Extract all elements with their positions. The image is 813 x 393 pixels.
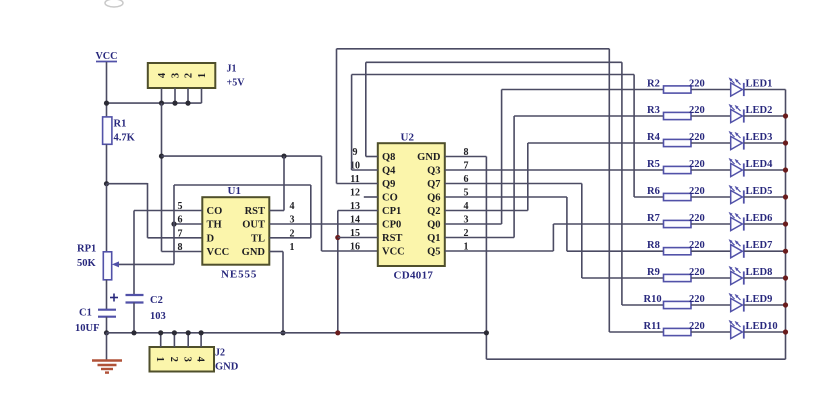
svg-text:1: 1	[290, 242, 295, 253]
svg-text:9: 9	[353, 147, 358, 158]
svg-text:8: 8	[178, 242, 183, 253]
junction J2 pin2 at rail	[172, 330, 177, 335]
wire J2 pin4 lead	[200, 333, 202, 347]
wire U1 pin8 VCC stub	[162, 251, 203, 253]
wire Q8 drop to LED9 row	[621, 62, 623, 305]
wire RST riser to +5V rail	[283, 156, 285, 210]
wire +5V rail	[162, 155, 322, 157]
wire R1 bottom to node D	[106, 144, 108, 183]
svg-text:R2: R2	[647, 78, 660, 89]
svg-text:1: 1	[154, 357, 165, 362]
wire R5 to LED4	[691, 169, 731, 171]
junction cathode bus LED3	[783, 140, 788, 145]
svg-text:VCC: VCC	[95, 51, 117, 62]
junction C1 ground rail	[104, 330, 109, 335]
wire C2 bottom to ground rail	[133, 303, 135, 333]
svg-text:U2: U2	[401, 132, 415, 144]
junction cathode bus LED4	[783, 167, 788, 172]
svg-text:220: 220	[689, 294, 705, 305]
svg-text:D: D	[207, 233, 215, 244]
wire TL loop right down	[310, 185, 312, 238]
svg-text:LED8: LED8	[746, 267, 773, 278]
svg-text:R10: R10	[644, 294, 662, 305]
wire LED2 row	[514, 115, 663, 117]
U1 left pin numbers 5 6 7 8	[178, 201, 183, 253]
LED7	[729, 239, 773, 258]
capacitor C1	[75, 294, 118, 335]
wire LED return bottom	[486, 358, 785, 360]
svg-text:LED7: LED7	[746, 240, 773, 251]
wire CP1-RST ground column	[337, 211, 339, 333]
svg-text:LED1: LED1	[746, 78, 773, 89]
svg-text:220: 220	[689, 186, 705, 197]
wire R6 to LED5	[691, 196, 731, 198]
junction TH node	[171, 221, 176, 226]
wire Q6 drop to LED7 row	[566, 197, 568, 251]
svg-text:12: 12	[350, 188, 360, 199]
wire Q0 riser to LED1 row	[501, 90, 503, 225]
connector J1	[148, 63, 245, 89]
resistor R11	[644, 321, 705, 336]
svg-text:103: 103	[150, 311, 166, 322]
svg-text:VCC: VCC	[382, 247, 405, 258]
wire C1 bottom to ground rail	[106, 317, 108, 333]
wire node D horizontal	[107, 183, 148, 185]
resistor R8	[647, 240, 705, 255]
svg-text:220: 220	[689, 213, 705, 224]
svg-text:220: 220	[689, 78, 705, 89]
wire U2 pin7 Q3 to LED4 row	[445, 169, 664, 171]
wire LED10 cathode to bus	[744, 331, 786, 333]
scan artifact top	[105, 0, 123, 7]
svg-text:J1: J1	[227, 64, 237, 75]
svg-text:RP1: RP1	[77, 244, 96, 255]
svg-text:2: 2	[168, 357, 179, 362]
wire J1 pin2 lead	[187, 88, 189, 103]
svg-text:220: 220	[689, 267, 705, 278]
junction cathode bus LED5	[783, 194, 788, 199]
svg-text:Q9: Q9	[382, 179, 395, 190]
wire Q8 top bus	[366, 61, 622, 63]
wire LED1 row	[502, 89, 664, 91]
svg-text:2: 2	[184, 73, 195, 78]
svg-text:7: 7	[178, 228, 183, 239]
junction J2 pin3 at rail	[186, 330, 191, 335]
U2 right pin numbers 8-1	[464, 147, 469, 253]
svg-text:1: 1	[197, 73, 208, 78]
wire Q7 drop to LED8 row	[581, 184, 583, 279]
junction U2 RST tap	[335, 235, 340, 240]
wire J1 pin4 lead	[161, 88, 163, 103]
LED3	[729, 131, 773, 150]
wire LED7 row	[567, 250, 664, 252]
svg-text:10UF: 10UF	[75, 323, 100, 334]
resistor R4	[647, 132, 705, 147]
svg-text:4.7K: 4.7K	[114, 133, 136, 144]
wire J2 pin3 lead	[187, 333, 189, 347]
svg-text:4: 4	[195, 357, 206, 363]
svg-text:LED5: LED5	[746, 186, 773, 197]
svg-text:R7: R7	[647, 213, 660, 224]
wire Q4 drop to LED5 row	[633, 75, 635, 198]
svg-text:LED4: LED4	[746, 159, 774, 170]
svg-text:R5: R5	[647, 159, 660, 170]
wire J2 pin1 lead	[160, 333, 162, 347]
wire U1 pin1 GND stub	[269, 251, 283, 253]
wire U2 pin6 Q7 stub	[445, 183, 582, 185]
svg-text:4: 4	[290, 201, 295, 212]
svg-text:220: 220	[689, 159, 705, 170]
wire node D vertical to pin7 row	[147, 183, 149, 238]
svg-text:R6: R6	[647, 186, 660, 197]
wire U2 GND drop	[485, 157, 487, 360]
power symbol VCC	[95, 51, 117, 62]
svg-text:LED3: LED3	[746, 132, 773, 143]
junction cathode bus LED8	[783, 275, 788, 280]
svg-text:Q3: Q3	[427, 166, 440, 177]
svg-text:OUT: OUT	[242, 220, 265, 231]
LED6	[729, 212, 773, 231]
junction U1 GND at rail	[280, 330, 285, 335]
wire U2 pin5 Q6 stub	[445, 196, 567, 198]
junction cathode bus LED7	[783, 249, 788, 254]
wire to U1 pin 7	[148, 237, 203, 239]
wire R11 to LED10	[691, 331, 731, 333]
wire U2 pin13 CP1 stub	[338, 210, 378, 212]
resistor R7	[647, 213, 705, 228]
svg-text:CP0: CP0	[382, 220, 401, 231]
svg-text:CD4017: CD4017	[394, 270, 434, 282]
svg-text:3: 3	[182, 357, 193, 362]
wire R7 to LED6	[691, 223, 731, 225]
wire R3 to LED2	[691, 115, 731, 117]
potentiometer RP1	[77, 244, 112, 280]
wire ground rail to ground symbol	[106, 333, 108, 360]
svg-text:LED9: LED9	[746, 294, 773, 305]
svg-text:+5V: +5V	[227, 78, 246, 89]
LED9	[729, 293, 773, 312]
junction J2 pin4 at rail	[199, 330, 204, 335]
junction VCC rail at J1 pin4	[159, 101, 164, 106]
svg-text:CO: CO	[382, 193, 398, 204]
svg-text:16: 16	[350, 242, 360, 253]
wire LED3 row	[528, 142, 664, 144]
wire J1 pin1 lead	[201, 88, 203, 103]
junction cathode bus LED10	[783, 329, 788, 334]
wire VCC rail under J1	[107, 102, 202, 104]
wire Q5 riser to LED6 row	[552, 224, 554, 251]
svg-text:C2: C2	[150, 295, 163, 306]
junction cathode bus LED2	[783, 113, 788, 118]
U1 left pin names	[207, 206, 230, 258]
svg-text:VCC: VCC	[207, 247, 230, 258]
svg-text:220: 220	[689, 321, 705, 332]
wire LED8 cathode to bus	[744, 277, 786, 279]
svg-text:C1: C1	[79, 308, 92, 319]
LED5	[729, 185, 773, 204]
ic U2 CD4017 body	[378, 132, 445, 282]
wire +5V rail node to R1 top	[106, 103, 108, 117]
ground	[92, 361, 122, 373]
resistor R9	[647, 267, 705, 282]
LED4	[729, 158, 773, 177]
svg-text:Q5: Q5	[427, 247, 440, 258]
wire Q9 drop to LED10 row	[608, 49, 610, 332]
junction J2 pin1 at rail	[158, 330, 163, 335]
svg-text:GND: GND	[215, 362, 239, 373]
svg-text:Q8: Q8	[382, 152, 395, 163]
wire R9 to LED8	[691, 277, 731, 279]
svg-text:Q4: Q4	[382, 166, 396, 177]
wire LED6 cathode to bus	[744, 223, 786, 225]
LED8	[729, 266, 773, 285]
wire node D down to RP1 top	[106, 184, 108, 252]
wire LED cathode bus	[785, 90, 787, 360]
svg-text:LED10: LED10	[746, 321, 778, 332]
wire LED10 row	[609, 331, 663, 333]
svg-text:TH: TH	[207, 220, 222, 231]
junction cathode bus LED6	[783, 221, 788, 226]
wire R8 to LED7	[691, 250, 731, 252]
svg-text:J2: J2	[215, 348, 225, 359]
svg-text:R8: R8	[647, 240, 660, 251]
U2 left pin numbers 9-16	[350, 147, 360, 253]
wire U1 pin4 RST stub	[269, 210, 284, 212]
svg-text:Q6: Q6	[427, 193, 440, 204]
wire Q4 top bus	[352, 74, 634, 76]
resistor R6	[647, 186, 705, 201]
wire RP1 bottom to C1 top	[106, 280, 108, 310]
svg-text:TL: TL	[251, 233, 265, 244]
wire J1 pin3 lead	[174, 88, 176, 103]
svg-text:R1: R1	[114, 119, 127, 130]
svg-text:3: 3	[171, 73, 182, 78]
resistor R2	[647, 78, 705, 93]
wire Q9 riser	[336, 49, 338, 184]
wire R2 to LED1	[691, 89, 731, 91]
wire U2 pin4 Q2 stub	[445, 210, 528, 212]
wire U2 pin9 Q8 stub	[366, 156, 378, 158]
wire TH-TL loop top	[174, 184, 311, 186]
wire LED5 cathode to bus	[744, 196, 786, 198]
svg-text:220: 220	[689, 132, 705, 143]
svg-text:Q2: Q2	[427, 206, 440, 217]
connector J2	[150, 347, 239, 373]
wire LED6 row	[553, 223, 663, 225]
wire U1 pin2 TL stub	[269, 237, 311, 239]
U2 right pin names	[417, 152, 441, 258]
svg-text:CO: CO	[207, 206, 223, 217]
LED2	[729, 104, 773, 123]
wire U2 pin8 GND stub	[445, 156, 487, 158]
wire LED7 cathode to bus	[744, 250, 786, 252]
U2 left pin names	[382, 152, 405, 258]
svg-text:220: 220	[689, 240, 705, 251]
wire U2 pin15 RST stub	[338, 237, 378, 239]
wire Q8 riser	[365, 62, 367, 156]
svg-text:4: 4	[157, 72, 168, 78]
wire U2 pin1 Q5 stub	[445, 250, 554, 252]
wire LED9 row	[622, 304, 664, 306]
wire LED8 row	[582, 277, 664, 279]
capacitor C2	[126, 295, 166, 322]
wire LED1 cathode to bus	[744, 89, 786, 91]
wire U1 GND drop	[282, 252, 284, 333]
LED10	[729, 320, 778, 339]
wire ground rail	[107, 332, 487, 334]
svg-text:RST: RST	[382, 233, 402, 244]
wire Q9 top bus	[337, 48, 610, 50]
svg-text:LED6: LED6	[746, 213, 773, 224]
wire U2 pin3 Q0 stub	[445, 223, 502, 225]
svg-text:Q1: Q1	[427, 233, 440, 244]
wire +5V column down	[161, 103, 163, 251]
wire LED3 cathode to bus	[744, 142, 786, 144]
junction ground rail meets GND drop	[484, 330, 489, 335]
junction VCC rail at VCC column	[104, 101, 109, 106]
wire U2 pin10 Q4 stub	[352, 169, 378, 171]
wire U1 pin5 CO to C2 column	[134, 210, 202, 212]
wire U2 pin11 Q9 stub	[337, 183, 378, 185]
wire J2 pin2 lead	[173, 333, 175, 347]
svg-text:R11: R11	[644, 321, 662, 332]
svg-text:14: 14	[350, 215, 360, 226]
wire R4 to LED3	[691, 142, 731, 144]
wire U2 pin12 CO stub	[364, 196, 378, 198]
resistor R10	[644, 294, 705, 309]
junction R1 bottom node D	[104, 181, 109, 186]
svg-text:GND: GND	[242, 247, 266, 258]
svg-text:NE555: NE555	[221, 269, 257, 281]
wire U2 pin2 Q1 stub	[445, 237, 514, 239]
junction +5V rail start	[159, 154, 164, 159]
U1 right pin names	[242, 206, 266, 258]
svg-text:R4: R4	[647, 132, 661, 143]
wire Q2 riser to LED3 row	[527, 143, 529, 211]
wire Q4 riser	[351, 75, 353, 171]
junction cathode bus LED9	[783, 302, 788, 307]
svg-text:U1: U1	[228, 185, 241, 197]
svg-text:LED2: LED2	[746, 105, 773, 116]
wire LED2 cathode to bus	[744, 115, 786, 117]
wire LED4 cathode to bus	[744, 169, 786, 171]
svg-text:Q7: Q7	[427, 179, 440, 190]
wire LED5 row	[634, 196, 663, 198]
wire R10 to LED9	[691, 304, 731, 306]
svg-text:50K: 50K	[77, 258, 97, 269]
wire Q1 riser to LED2 row	[513, 116, 515, 238]
junction VCC rail at J1 pin2	[185, 101, 190, 106]
wire LED9 cathode to bus	[744, 304, 786, 306]
junction CP1 column at ground rail	[335, 330, 340, 335]
svg-text:R9: R9	[647, 267, 660, 278]
wire VCC to +5V rail node	[106, 62, 108, 103]
svg-text:R3: R3	[647, 105, 660, 116]
junction C2 at ground rail	[131, 330, 136, 335]
resistor R1	[103, 117, 136, 144]
svg-text:CP1: CP1	[382, 206, 401, 217]
svg-text:220: 220	[689, 105, 705, 116]
junction VCC rail at J1 pin3	[172, 101, 177, 106]
svg-text:RST: RST	[245, 206, 265, 217]
LED1	[729, 77, 773, 96]
wire +5V drop to U2 VCC	[321, 156, 323, 251]
wire U1 pin3 OUT to U2 pin14 CP0	[269, 223, 378, 225]
U1 right pin numbers 4 3 2 1	[290, 201, 295, 253]
resistor R3	[647, 105, 705, 120]
wire U1 pin6 TH stub	[174, 223, 202, 225]
RP1 wiper arrow	[112, 261, 174, 267]
svg-text:GND: GND	[417, 152, 441, 163]
junction +5V rail to U1 RST	[281, 154, 286, 159]
resistor R5	[647, 159, 705, 174]
wire TH-TL column	[173, 185, 175, 264]
svg-text:Q0: Q0	[427, 220, 440, 231]
op-amp U1 NE555 body	[202, 185, 269, 281]
wire U2 pin16 VCC stub	[322, 250, 378, 252]
wire C2 column down	[133, 211, 135, 296]
